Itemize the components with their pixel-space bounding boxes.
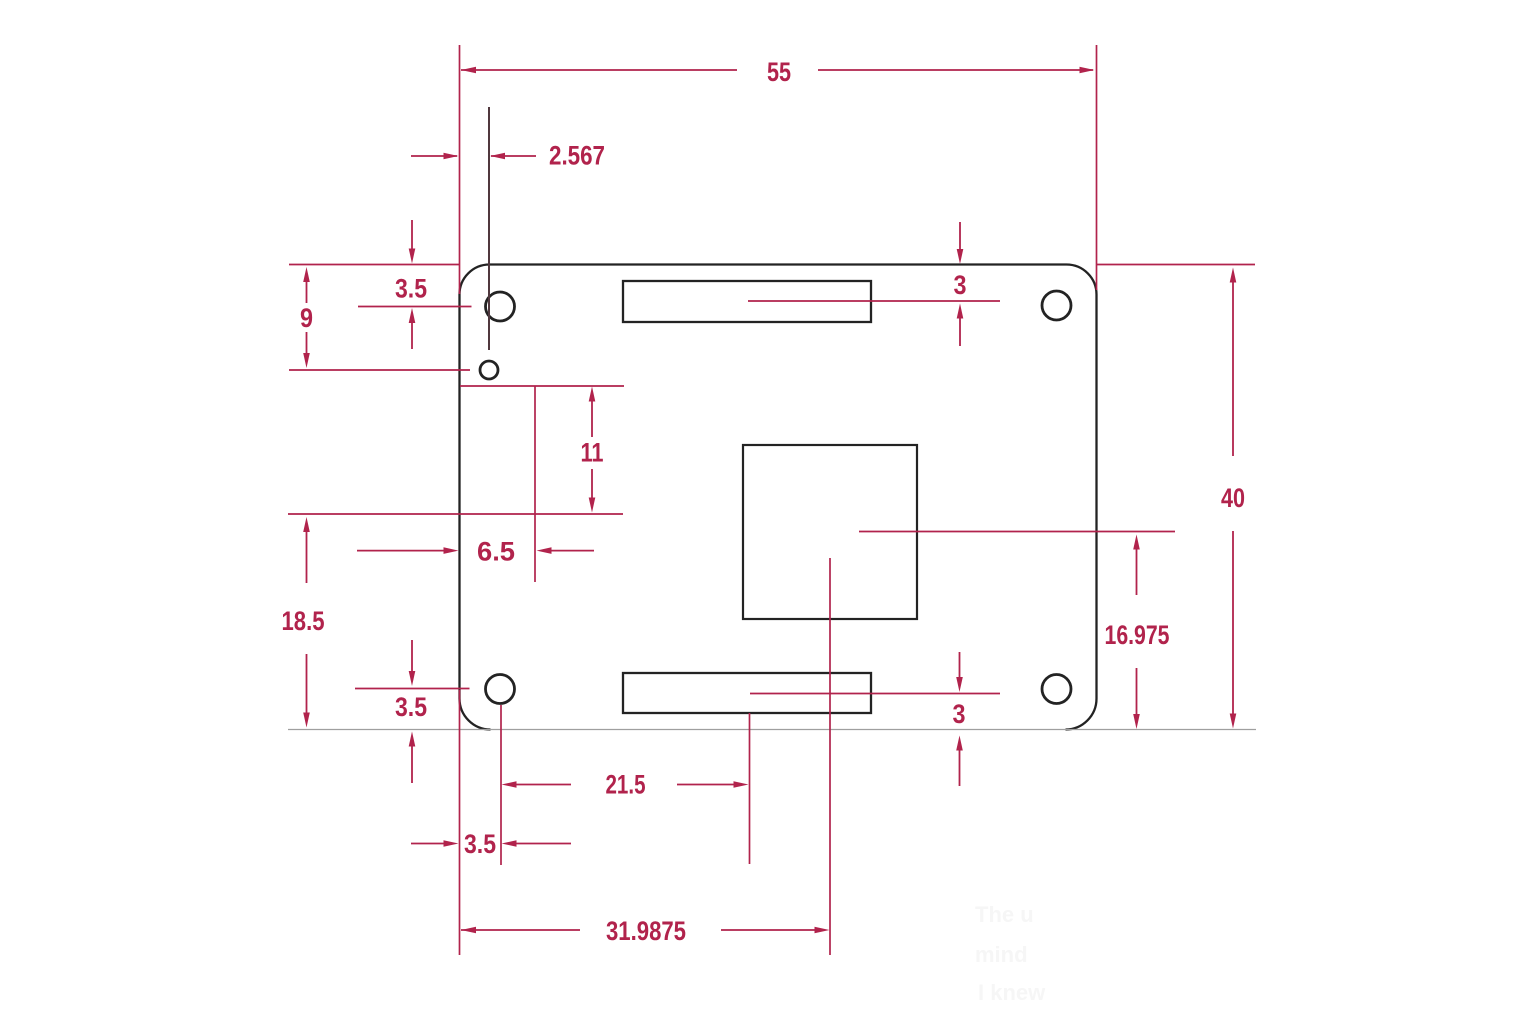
dim 2.567 xyxy=(411,141,605,171)
hole top-right xyxy=(1042,291,1071,320)
ref line 11-top xyxy=(460,385,624,387)
dim 11 xyxy=(581,387,604,513)
ext line top edge left xyxy=(289,264,460,266)
board bottom edge (thin gray) xyxy=(288,729,1256,731)
leader chip center horizontal xyxy=(859,531,1175,533)
svg-text:3: 3 xyxy=(953,699,966,729)
svg-text:3.5: 3.5 xyxy=(464,829,496,859)
svg-text:3.5: 3.5 xyxy=(395,692,427,722)
dim 9 xyxy=(300,267,313,368)
svg-text:21.5: 21.5 xyxy=(606,770,646,800)
hole bottom-right xyxy=(1042,675,1071,704)
svg-text:I knew: I knew xyxy=(978,980,1046,1005)
bottom connector rect xyxy=(623,673,871,713)
ref line 18.5-top / 11-bottom xyxy=(288,513,623,515)
dim 40 xyxy=(1221,268,1245,729)
dim 21.5 xyxy=(502,770,749,800)
board outline (open bottom) xyxy=(460,265,1097,730)
svg-text:9: 9 xyxy=(300,303,313,333)
dim 6.5 xyxy=(357,537,594,567)
svg-text:2.567: 2.567 xyxy=(549,141,605,171)
hole bottom-left xyxy=(486,675,515,704)
top connector rect (GPIO) xyxy=(623,281,871,322)
svg-text:mind: mind xyxy=(975,942,1028,967)
small hole (TV via) xyxy=(480,361,498,379)
svg-text:16.975: 16.975 xyxy=(1105,620,1170,650)
ext line BL hole center xyxy=(355,688,470,690)
svg-text:55: 55 xyxy=(767,57,791,87)
ext line TL hole center xyxy=(358,306,472,308)
dim 3 top xyxy=(954,222,967,346)
dim 31.9875 xyxy=(461,916,830,946)
svg-text:3: 3 xyxy=(954,270,967,300)
hole top-left xyxy=(486,292,515,321)
dim 3 bottom xyxy=(953,652,966,786)
ext line 6.5 vertical xyxy=(534,386,536,582)
leader chip center vertical xyxy=(829,558,831,955)
svg-text:40: 40 xyxy=(1221,483,1245,513)
faint watermark xyxy=(975,902,1046,1005)
leader bottom connector center vertical xyxy=(749,713,751,864)
dim 3.5 bottom-left vertical xyxy=(395,640,427,783)
svg-text:The u: The u xyxy=(975,902,1034,927)
svg-text:6.5: 6.5 xyxy=(477,537,515,567)
chip square (SoC) xyxy=(743,445,917,619)
ext line small hole center xyxy=(289,369,470,371)
leader BL hole center vertical xyxy=(500,705,502,865)
extension line small-hole center x (dark) xyxy=(488,107,490,350)
dim 16.975 xyxy=(1105,535,1170,730)
svg-text:31.9875: 31.9875 xyxy=(606,916,686,946)
svg-text:11: 11 xyxy=(581,438,604,468)
ext line board left edge (below board) xyxy=(459,690,461,955)
ext line board right edge (above board) xyxy=(1096,45,1098,290)
ext line board left edge (above board) xyxy=(459,45,461,294)
ext line top edge right xyxy=(1097,264,1256,266)
leader top connector center xyxy=(748,300,1000,302)
dim 3.5 bottom xyxy=(411,829,571,859)
svg-text:18.5: 18.5 xyxy=(282,606,325,636)
dim 55 xyxy=(461,57,1095,87)
dim 3.5 top-left xyxy=(395,220,427,349)
svg-text:3.5: 3.5 xyxy=(395,274,427,304)
dim 18.5 xyxy=(282,517,325,728)
leader bottom connector center xyxy=(750,693,1000,695)
